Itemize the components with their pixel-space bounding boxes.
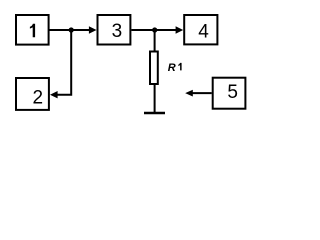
arrowhead pointing left from block5 xyxy=(185,90,193,97)
wire resistor to ground xyxy=(154,84,156,112)
label 1 xyxy=(30,24,35,38)
svg-text:4: 4 xyxy=(198,21,209,42)
svg-text:3: 3 xyxy=(112,21,123,42)
svg-text:2: 2 xyxy=(33,87,44,108)
arrowhead into block4 xyxy=(176,26,184,33)
junction node A xyxy=(69,27,74,32)
resistor R1 xyxy=(150,52,158,85)
arrowhead into block3 xyxy=(89,26,97,33)
wire from block5 xyxy=(192,92,211,94)
wire node A down to block2 xyxy=(56,30,71,95)
arrowhead into block2 xyxy=(50,91,58,98)
block 5 xyxy=(213,78,246,109)
svg-text:R: R xyxy=(168,62,176,74)
svg-text:5: 5 xyxy=(227,82,238,103)
junction node B xyxy=(152,27,157,32)
block 1 xyxy=(16,15,49,45)
block 3 xyxy=(98,15,131,45)
wire block1 to block3 xyxy=(50,29,91,31)
block 2 xyxy=(16,78,49,110)
wire node B down to resistor xyxy=(154,30,156,52)
wire block3 to block4 xyxy=(131,29,176,31)
ground xyxy=(144,112,165,115)
block 4 xyxy=(184,15,217,44)
